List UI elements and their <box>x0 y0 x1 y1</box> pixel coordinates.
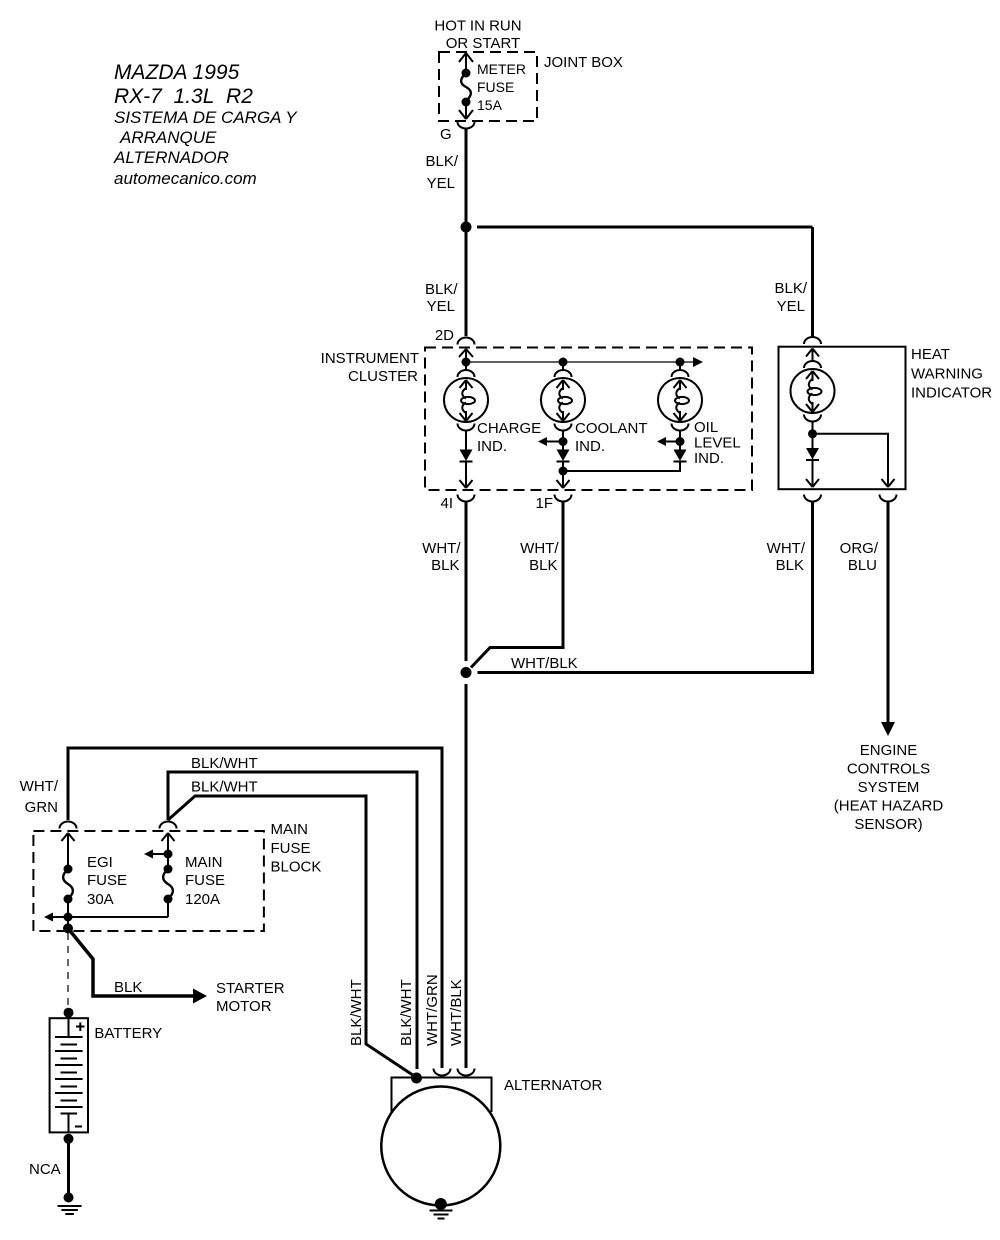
node junction dot BLK/YEL <box>461 222 472 233</box>
svg-text:BLK/: BLK/ <box>774 280 807 297</box>
svg-text:IND.: IND. <box>694 450 724 467</box>
svg-text:NCA: NCA <box>29 1161 61 1178</box>
svg-text:MAIN: MAIN <box>185 854 223 871</box>
connector below heat box right <box>880 495 897 502</box>
svg-text:ALTERNADOR: ALTERNADOR <box>113 148 229 167</box>
lamp CHARGE IND. <box>444 378 541 455</box>
svg-text:OIL: OIL <box>694 419 718 436</box>
meter fuse 15A <box>459 52 526 119</box>
svg-text:CLUSTER: CLUSTER <box>348 368 418 385</box>
alternator terminal cup WHT/GRN <box>434 1069 451 1076</box>
wire WHT/BLK main vertical to alternator <box>465 684 468 1068</box>
svg-text:ENGINE: ENGINE <box>860 742 918 759</box>
svg-text:FUSE: FUSE <box>185 872 225 889</box>
node dot at fuse block bottom <box>63 923 73 933</box>
svg-text:COOLANT: COOLANT <box>575 420 648 437</box>
wire heavy horizontal to right branch <box>477 226 813 229</box>
svg-text:YEL: YEL <box>427 298 455 315</box>
diode heat <box>806 448 819 487</box>
svg-text:LEVEL: LEVEL <box>694 435 741 452</box>
lamp heat warning <box>791 369 835 413</box>
svg-text:WHT/: WHT/ <box>20 778 59 795</box>
wire WHT/BLK from 4I down <box>422 502 466 661</box>
svg-text:automecanico.com: automecanico.com <box>114 169 257 188</box>
ground alternator <box>430 1198 453 1219</box>
svg-text:BLK/WHT: BLK/WHT <box>398 979 415 1046</box>
node dot battery minus <box>64 1134 74 1144</box>
svg-text:IND.: IND. <box>575 438 605 455</box>
svg-text:CHARGE: CHARGE <box>477 420 541 437</box>
lamp connector coolant <box>555 364 572 377</box>
svg-text:SENSOR): SENSOR) <box>854 816 922 833</box>
title block text <box>113 61 298 188</box>
svg-text:G: G <box>440 126 452 143</box>
svg-text:GRN: GRN <box>25 799 58 816</box>
wire WHT/GRN from EGI fuse up and over to alternator <box>20 748 442 1068</box>
alternator body box <box>392 1078 492 1113</box>
arrow out of cluster coolant <box>557 480 570 488</box>
svg-text:MAIN: MAIN <box>271 821 309 838</box>
svg-text:MAZDA 1995: MAZDA 1995 <box>114 61 240 84</box>
joint box <box>439 52 623 121</box>
svg-text:WHT/BLK: WHT/BLK <box>448 979 465 1046</box>
svg-text:INDICATOR: INDICATOR <box>911 385 992 402</box>
svg-text:WHT/BLK: WHT/BLK <box>511 655 578 672</box>
wire branch right inside heat box <box>813 434 889 487</box>
coolant branch lower: cup, node, left arrow <box>538 424 572 451</box>
battery <box>50 1018 163 1132</box>
wire NCA battery ground <box>29 1139 69 1195</box>
wire BLK to starter motor <box>68 928 285 1015</box>
svg-text:BLK/: BLK/ <box>425 281 458 298</box>
svg-text:BLK/WHT: BLK/WHT <box>348 979 365 1046</box>
label ENGINE CONTROLS SYSTEM <box>834 742 944 833</box>
svg-text:ARRANQUE: ARRANQUE <box>119 128 217 147</box>
connector 4I <box>440 495 474 513</box>
cup below heat lamp <box>804 415 821 422</box>
svg-text:BLK: BLK <box>776 557 804 574</box>
svg-text:1F: 1F <box>535 495 553 512</box>
net label HOT IN RUN OR START <box>434 18 521 53</box>
wire BLK/YEL right branch down to heat indicator <box>774 227 812 336</box>
node dot battery plus <box>64 1008 74 1018</box>
connector at heat indicator top <box>804 337 821 344</box>
svg-text:FUSE: FUSE <box>87 872 127 889</box>
svg-text:WHT/: WHT/ <box>767 540 806 557</box>
svg-text:EGI: EGI <box>87 854 113 871</box>
svg-text:BLK: BLK <box>431 557 459 574</box>
wire fuse outputs joined, arrow out left <box>44 913 168 922</box>
svg-text:BLK: BLK <box>529 557 557 574</box>
wire BLK/YEL left branch down to 2D <box>425 227 466 336</box>
svg-text:ORG/: ORG/ <box>840 540 879 557</box>
wire WHT/BLK from 1F down and into junction <box>471 502 563 668</box>
wire BLK/YEL from G down to junction <box>425 129 466 228</box>
entry arrow MAIN <box>162 833 175 845</box>
svg-text:30A: 30A <box>87 891 114 908</box>
svg-text:2D: 2D <box>435 327 454 344</box>
lamp OIL LEVEL IND. <box>658 378 741 467</box>
connector MAIN fuse top <box>160 822 177 829</box>
svg-text:BLK: BLK <box>114 979 142 996</box>
svg-text:(HEAT HAZARD: (HEAT HAZARD <box>834 798 944 815</box>
wire BLK/WHT upper from main fuse to alternator <box>168 755 417 1069</box>
svg-text:BLOCK: BLOCK <box>271 859 322 876</box>
svg-text:MOTOR: MOTOR <box>216 998 272 1015</box>
ground battery <box>58 1193 82 1215</box>
node dot heat lamp out <box>808 429 817 438</box>
wire ORG/BLU down to engine controls <box>840 502 895 736</box>
diode oil <box>674 450 687 462</box>
wire entry arrow into cluster at 2D <box>459 349 473 362</box>
connector 1F <box>535 495 571 513</box>
svg-text:JOINT BOX: JOINT BOX <box>544 54 623 71</box>
lamp connector charge <box>458 364 475 377</box>
svg-text:OR START: OR START <box>446 35 520 52</box>
connector EGI fuse top <box>60 822 77 829</box>
node junction dot WHT/BLK <box>461 667 472 678</box>
entry arrow into heat box <box>806 349 819 361</box>
svg-text:ALTERNATOR: ALTERNATOR <box>504 1077 603 1094</box>
svg-text:WHT/GRN: WHT/GRN <box>424 974 441 1046</box>
svg-text:FUSE: FUSE <box>477 79 514 95</box>
svg-text:HOT IN RUN: HOT IN RUN <box>434 18 521 35</box>
svg-text:WARNING: WARNING <box>911 366 983 383</box>
wire joining oil branch to coolant branch <box>563 462 680 471</box>
instrument cluster dashed box <box>321 348 752 491</box>
svg-text:FUSE: FUSE <box>271 840 311 857</box>
svg-text:15A: 15A <box>477 97 503 113</box>
svg-text:SISTEMA DE CARGA Y: SISTEMA DE CARGA Y <box>114 108 298 127</box>
svg-text:YEL: YEL <box>427 175 455 192</box>
diode coolant <box>557 450 570 489</box>
node dot BLK/WHT terminal <box>411 1073 422 1084</box>
connector 2D <box>435 327 475 345</box>
svg-text:METER: METER <box>477 61 526 77</box>
svg-text:WHT/: WHT/ <box>422 540 461 557</box>
alternator circle <box>381 1087 500 1206</box>
wire WHT/BLK from heat box down to junction <box>478 502 813 673</box>
svg-text:HEAT: HEAT <box>911 346 950 363</box>
svg-text:IND.: IND. <box>477 438 507 455</box>
alternator terminal cup WHT/BLK <box>458 1069 475 1076</box>
svg-text:CONTROLS: CONTROLS <box>847 761 930 778</box>
oil branch lower: cup, node, left arrow <box>657 424 689 451</box>
node dot coolant-oil join <box>559 467 568 476</box>
wire BLK/WHT lower from main fuse to alternator <box>168 779 417 1078</box>
fuse EGI 30A <box>63 843 127 928</box>
arrow right end of bus <box>693 357 703 367</box>
wire dashed to battery <box>67 933 69 1008</box>
svg-text:RX-7 1.3L R2: RX-7 1.3L R2 <box>114 85 253 108</box>
svg-text:WHT/: WHT/ <box>520 540 559 557</box>
connector G <box>440 122 475 143</box>
svg-text:BATTERY: BATTERY <box>94 1025 162 1042</box>
svg-text:BLK/: BLK/ <box>425 153 458 170</box>
charge branch lower: cup, wire, diode, arrow out <box>458 424 475 451</box>
fuse MAIN 120A <box>144 843 225 917</box>
node dot coolant branch top <box>559 358 568 367</box>
diode charge <box>460 450 473 489</box>
entry arrow EGI <box>62 833 75 845</box>
lamp connector heat <box>804 361 821 368</box>
svg-text:YEL: YEL <box>777 298 805 315</box>
svg-text:BLK/WHT: BLK/WHT <box>191 779 258 796</box>
svg-text:120A: 120A <box>185 891 220 908</box>
svg-text:STARTER: STARTER <box>216 980 285 997</box>
lamp COOLANT IND. <box>541 378 648 455</box>
node dot EGI output <box>64 913 73 922</box>
heat warning indicator box <box>779 346 993 489</box>
svg-text:INSTRUMENT: INSTRUMENT <box>321 350 419 367</box>
node dot charge branch top <box>462 358 471 367</box>
main fuse block dashed box <box>33 821 321 931</box>
svg-text:SYSTEM: SYSTEM <box>858 779 920 796</box>
lamp connector oil <box>672 364 689 377</box>
svg-text:BLU: BLU <box>848 557 877 574</box>
wire thin bus inside cluster <box>466 361 693 363</box>
connector below heat box left <box>804 495 821 502</box>
svg-text:4I: 4I <box>440 495 453 512</box>
node dot oil branch top <box>676 358 685 367</box>
svg-text:BLK/WHT: BLK/WHT <box>191 755 258 772</box>
